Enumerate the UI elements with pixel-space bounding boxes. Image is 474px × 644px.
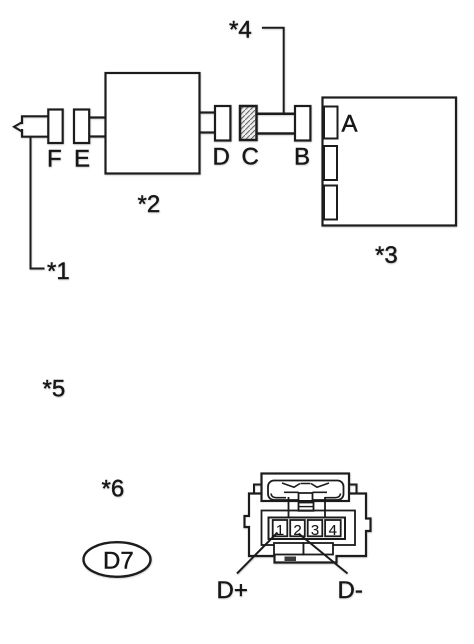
svg-text:D7: D7 bbox=[103, 548, 134, 575]
pin row outer rect bbox=[269, 518, 346, 540]
svg-text:3: 3 bbox=[311, 522, 319, 539]
connector D7 ellipse bbox=[84, 542, 151, 577]
body inner rect bbox=[262, 511, 356, 546]
svg-text:E: E bbox=[74, 146, 90, 173]
tab center bump bbox=[299, 493, 313, 500]
svg-text:1: 1 bbox=[276, 522, 284, 539]
bottom tab mark bbox=[285, 557, 297, 562]
svg-text:*3: *3 bbox=[375, 242, 398, 269]
tab inner V decorations bbox=[282, 483, 329, 487]
label E bbox=[74, 146, 90, 173]
svg-text:*1: *1 bbox=[47, 258, 70, 285]
box *3 bbox=[323, 98, 457, 226]
svg-text:B: B bbox=[294, 144, 310, 171]
terminal C (hatched) bbox=[240, 106, 257, 140]
label A bbox=[342, 111, 358, 138]
tab wing bottom lines bbox=[271, 494, 341, 498]
label *1 bbox=[47, 258, 70, 285]
pointer *4 bbox=[262, 28, 284, 113]
pin number 2 bbox=[293, 522, 301, 539]
wires E to box *2 bbox=[90, 118, 107, 137]
leader line D+ bbox=[237, 533, 278, 574]
tab inner shape bbox=[268, 481, 344, 501]
wire harness plug tip bbox=[14, 123, 22, 132]
label D- bbox=[338, 577, 363, 604]
pin cell 2 bbox=[290, 520, 305, 536]
svg-text:*4: *4 bbox=[229, 17, 252, 44]
svg-text:*6: *6 bbox=[102, 476, 125, 503]
terminal D bbox=[215, 106, 230, 141]
feet rect left bbox=[274, 543, 304, 555]
box *2 bbox=[106, 73, 200, 174]
svg-text:*5: *5 bbox=[43, 376, 66, 403]
wires box *2 to D bbox=[200, 113, 216, 133]
label *4 bbox=[229, 17, 252, 44]
label B bbox=[294, 144, 310, 171]
tab housing side steps bbox=[254, 485, 357, 494]
feet rect right bbox=[304, 543, 334, 555]
svg-text:C: C bbox=[242, 144, 259, 171]
terminal F bbox=[48, 110, 62, 144]
svg-text:D+: D+ bbox=[217, 577, 248, 604]
pin A rect bbox=[324, 107, 338, 139]
pin number 4 bbox=[329, 522, 337, 539]
label D bbox=[213, 144, 230, 171]
pin number 1 bbox=[276, 522, 284, 539]
connector tab housing bbox=[262, 474, 350, 502]
label D7 bbox=[103, 548, 134, 575]
label F bbox=[47, 146, 62, 173]
bar C to B bbox=[257, 114, 296, 134]
pin rect 3 of box *3 bbox=[324, 186, 337, 220]
wire to *1 bbox=[31, 137, 45, 269]
svg-text:F: F bbox=[47, 146, 62, 173]
pin rect 2 of box *3 bbox=[324, 146, 337, 180]
label *3 bbox=[375, 242, 398, 269]
label D+ bbox=[217, 577, 248, 604]
svg-text:2: 2 bbox=[293, 522, 301, 539]
terminal E bbox=[74, 110, 89, 144]
svg-text:A: A bbox=[342, 111, 358, 138]
pin cell 4 bbox=[325, 520, 341, 536]
tab inner mid lines bbox=[284, 491, 327, 493]
pin cell 1 bbox=[273, 520, 288, 536]
leader line D- bbox=[299, 534, 348, 574]
label C bbox=[242, 144, 259, 171]
pin number 3 bbox=[311, 522, 319, 539]
label *6 bbox=[102, 476, 125, 503]
vertical link lines bbox=[289, 497, 326, 518]
plug body bbox=[22, 116, 49, 136]
label *5 bbox=[43, 376, 66, 403]
svg-text:D-: D- bbox=[338, 577, 363, 604]
terminal B bbox=[295, 106, 310, 141]
connector main body bbox=[245, 494, 371, 563]
label *2 bbox=[138, 191, 161, 218]
svg-text:*2: *2 bbox=[138, 191, 161, 218]
pin cell 3 bbox=[308, 520, 323, 536]
latch small rect bbox=[299, 503, 314, 511]
svg-text:4: 4 bbox=[329, 522, 337, 539]
svg-text:D: D bbox=[213, 144, 230, 171]
